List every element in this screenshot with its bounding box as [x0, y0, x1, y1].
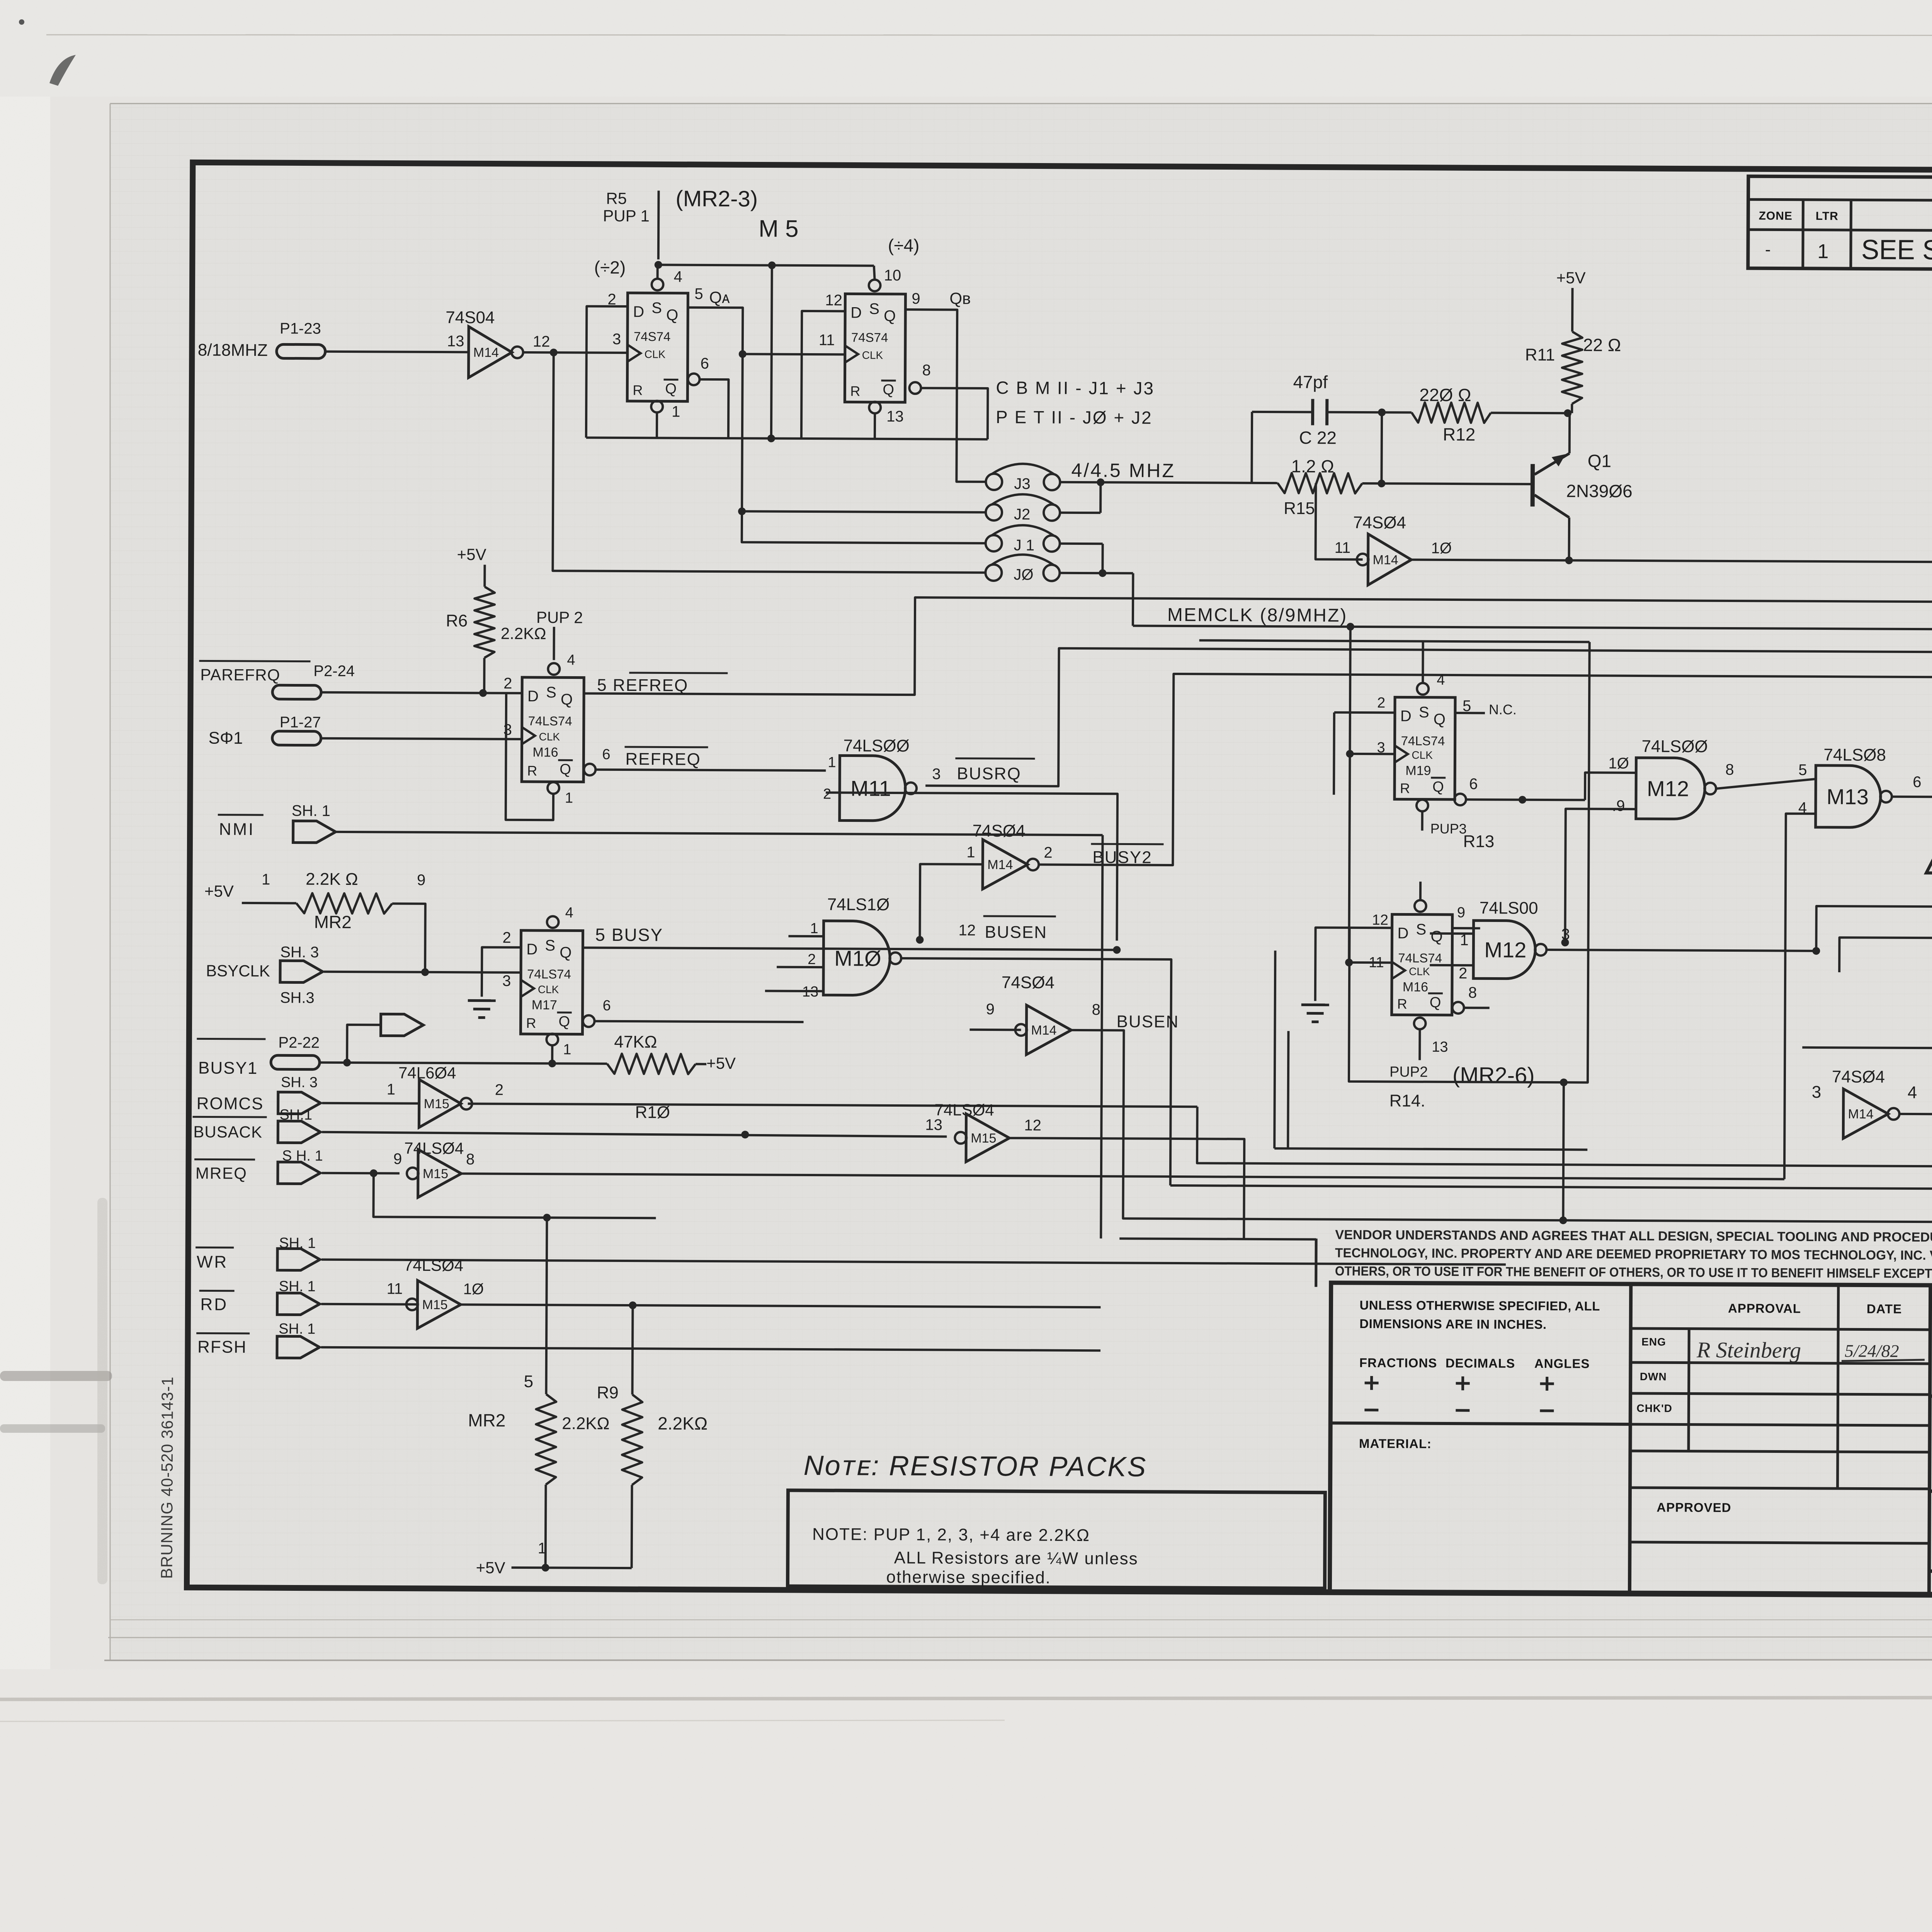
svg-text:4: 4 [1908, 1083, 1917, 1102]
svg-text:M 5: M 5 [759, 215, 799, 242]
svg-text:+5V: +5V [1556, 269, 1586, 287]
svg-text:WR: WR [197, 1252, 228, 1271]
svg-text:SH. 1: SH. 1 [292, 802, 330, 819]
jumper J2 [986, 504, 1002, 520]
svg-text:Q: Q [561, 691, 573, 708]
svg-text:PUP2: PUP2 [1389, 1064, 1428, 1080]
svg-text:(MR2-3): (MR2-3) [675, 186, 758, 212]
svg-text:1: 1 [563, 1041, 571, 1058]
svg-text:SH.3: SH.3 [280, 989, 315, 1006]
svg-text:1: 1 [262, 871, 270, 888]
svg-text:SΦ1: SΦ1 [209, 729, 243, 748]
svg-text:Q: Q [560, 761, 571, 777]
wire M19 clk stub [1350, 753, 1395, 755]
svg-text:Nᴏᴛᴇ: RESISTOR PACKS: Nᴏᴛᴇ: RESISTOR PACKS [804, 1450, 1147, 1483]
svg-text:4: 4 [567, 652, 575, 668]
svg-text:8: 8 [922, 362, 931, 379]
svg-text:S: S [651, 299, 662, 316]
svg-text:(÷4): (÷4) [888, 235, 920, 255]
svg-text:R: R [1400, 780, 1410, 796]
graph paper interior tint [110, 104, 1932, 1661]
svg-text:12: 12 [958, 922, 976, 939]
wire RFSH [321, 1347, 1100, 1350]
svg-text:CLK: CLK [1409, 966, 1430, 978]
svg-text:R9: R9 [597, 1383, 618, 1402]
svg-text:(÷2): (÷2) [594, 257, 626, 277]
wire M14e to M18b clk [1898, 1092, 1932, 1114]
svg-text:Qʙ: Qʙ [949, 289, 971, 308]
svg-text:Q: Q [1432, 779, 1444, 795]
wire J3 to RC network [1060, 482, 1252, 483]
svg-text:4: 4 [674, 269, 682, 286]
svg-text:PAREFRQ: PAREFRQ [200, 665, 280, 684]
svg-text:10: 10 [884, 267, 901, 284]
svg-text:74LSØ4: 74LSØ4 [404, 1256, 463, 1275]
svg-text:M12: M12 [1647, 776, 1689, 801]
svg-text:3: 3 [502, 973, 511, 990]
svg-text:2.2KΩ: 2.2KΩ [501, 624, 546, 643]
pin1 R stub M16a [548, 782, 559, 794]
svg-text:S: S [869, 301, 879, 318]
svg-text:Q: Q [884, 308, 896, 325]
svg-text:2: 2 [1044, 844, 1052, 861]
svg-text:11: 11 [1335, 539, 1351, 556]
M10 input stubs [788, 935, 823, 937]
svg-text:Q: Q [558, 1014, 570, 1030]
svg-text:Qᴀ: Qᴀ [709, 288, 730, 306]
pin6 Qbar feedback [688, 374, 699, 385]
svg-text:2.2KΩ: 2.2KΩ [658, 1413, 707, 1434]
svg-text:BUSY1: BUSY1 [198, 1058, 258, 1078]
svg-text:CLK: CLK [862, 349, 883, 361]
svg-text:D: D [1397, 925, 1408, 942]
svg-text:R14.: R14. [1389, 1091, 1425, 1110]
svg-text:D: D [850, 304, 862, 321]
svg-text:12: 12 [1372, 912, 1388, 928]
svg-text:1Ø: 1Ø [1608, 755, 1629, 772]
wire base line to Q1 [1381, 483, 1532, 484]
svg-text:S: S [546, 684, 556, 701]
svg-text:SEE SHEET 1: SEE SHEET 1 [1861, 234, 1932, 266]
reference triangle A2 [1926, 812, 1932, 873]
svg-text:Q: Q [1430, 928, 1442, 945]
paper edge lines [110, 103, 1932, 104]
M19 Qbar out 6 [1454, 794, 1466, 805]
wire vertical 3335 [1288, 1031, 1288, 1148]
svg-text:9: 9 [986, 1001, 995, 1018]
svg-text:47KΩ: 47KΩ [614, 1032, 657, 1051]
wire WR [321, 1260, 1506, 1265]
svg-text:47pf: 47pf [1293, 372, 1328, 392]
wire BUSY1 [320, 1063, 607, 1064]
svg-text:R13: R13 [1463, 832, 1494, 851]
M19 R pin1 PUP3 R13 [1417, 800, 1428, 811]
svg-text:DECIMALS: DECIMALS [1446, 1356, 1515, 1371]
svg-text:+5V: +5V [706, 1054, 736, 1072]
jumper J1 [986, 535, 1002, 551]
svg-text:2.2KΩ: 2.2KΩ [562, 1414, 610, 1433]
svg-text:8/18MHZ: 8/18MHZ [198, 340, 268, 360]
svg-text:J3: J3 [1014, 475, 1030, 492]
svg-text:M14: M14 [1031, 1023, 1056, 1037]
wire ROMCS [322, 1103, 419, 1104]
svg-text:2: 2 [503, 675, 512, 692]
wire M19 D stub [1334, 711, 1395, 714]
svg-text:74LS74: 74LS74 [1401, 733, 1445, 748]
svg-text:M14: M14 [987, 857, 1013, 872]
svg-text:CLK: CLK [1412, 749, 1433, 761]
wire MREQ [322, 1172, 400, 1175]
junction C22/R15 [1378, 408, 1386, 416]
svg-text:13: 13 [447, 333, 464, 350]
svg-text:P2-24: P2-24 [313, 663, 355, 680]
svg-text:M1Ø: M1Ø [834, 946, 881, 971]
svg-text:C B M II - J1 + J3: C B M II - J1 + J3 [996, 378, 1155, 398]
svg-text:5 REFREQ: 5 REFREQ [597, 676, 688, 695]
flip-flop M19 74LS74 [1395, 697, 1455, 799]
svg-text:1: 1 [966, 844, 975, 861]
svg-text:CLK: CLK [538, 983, 559, 995]
svg-text:S: S [1416, 921, 1426, 938]
wire bus 2972 [1101, 835, 1102, 1238]
svg-text:74SØ4: 74SØ4 [973, 821, 1026, 841]
scanner smudges left edge [0, 1371, 112, 1381]
svg-text:ALL Resistors are ¼W unles: ALL Resistors are ¼W unless [894, 1548, 1138, 1568]
svg-text:REFREQ: REFREQ [625, 750, 701, 769]
svg-text:74SØ4: 74SØ4 [1832, 1067, 1885, 1087]
svg-text:D: D [1400, 707, 1412, 724]
wire MEMCLK bus [1133, 626, 1932, 629]
svg-text:M14: M14 [1373, 553, 1398, 567]
svg-text:+5V: +5V [457, 545, 486, 563]
svg-text:.9: .9 [1612, 798, 1625, 815]
svg-text:BRUNING 40-520 36143-1: BRUNING 40-520 36143-1 [158, 1376, 177, 1579]
flip-flop M16a 74LS74 [522, 677, 584, 782]
svg-text:APPROVAL: APPROVAL [1728, 1301, 1801, 1316]
svg-text:BUSRQ: BUSRQ [957, 764, 1021, 784]
approval/date grid [1631, 1328, 1930, 1330]
svg-text:R: R [526, 1015, 536, 1031]
svg-text:M15: M15 [971, 1131, 996, 1146]
wire M19 S rail [1199, 640, 1590, 642]
svg-text:P1-27: P1-27 [280, 714, 321, 731]
svg-text:BUSEN: BUSEN [1116, 1012, 1179, 1031]
svg-text:5/24/82: 5/24/82 [1845, 1341, 1899, 1361]
wire into M14d [969, 1029, 1021, 1031]
svg-text:SH. 1: SH. 1 [279, 1321, 315, 1337]
svg-text:M13: M13 [1827, 784, 1869, 809]
svg-text:8: 8 [1092, 1001, 1100, 1018]
wire QA to J2 [742, 511, 986, 512]
M16b Qbar 8 [1452, 1002, 1464, 1014]
svg-text:5 BUSY: 5 BUSY [595, 925, 663, 945]
svg-text:MATERIAL:: MATERIAL: [1359, 1436, 1432, 1451]
svg-text:-: - [1765, 240, 1771, 259]
svg-text:PUP3: PUP3 [1430, 821, 1467, 837]
svg-text:74LS74: 74LS74 [527, 967, 571, 981]
disclaimer left bracket wire [1315, 1239, 1318, 1287]
flip-flop M17 74LS74 [520, 930, 583, 1034]
svg-text:8: 8 [466, 1151, 474, 1168]
svg-text:4: 4 [1437, 672, 1445, 688]
flip-flop M5a 74S74 (div2) [627, 293, 688, 401]
svg-text:74LSØ4: 74LSØ4 [404, 1139, 464, 1158]
svg-text:Q1: Q1 [1588, 451, 1612, 471]
svg-text:2: 2 [1377, 695, 1385, 711]
svg-text:ANGLES: ANGLES [1534, 1356, 1590, 1371]
svg-text:RFSH: RFSH [197, 1337, 247, 1357]
graph paper grid [110, 104, 1932, 1661]
svg-text:R: R [633, 382, 643, 398]
stray pen mark top-left [49, 55, 76, 86]
svg-text:1: 1 [387, 1081, 395, 1098]
svg-text:74L6Ø4: 74L6Ø4 [398, 1064, 456, 1082]
flip-flop M5b 74S74 (div4) [845, 294, 905, 402]
vertical M5 center rail [771, 265, 772, 439]
svg-text:22 Ω: 22 Ω [1583, 335, 1621, 355]
svg-text:CHK'D: CHK'D [1636, 1402, 1672, 1414]
svg-text:R1Ø: R1Ø [635, 1103, 670, 1122]
svg-text:M16: M16 [532, 745, 558, 760]
svg-text:D: D [526, 941, 537, 958]
svg-text:74S74: 74S74 [851, 330, 888, 344]
M12c inputs [1816, 906, 1932, 952]
svg-text:Q: Q [1434, 711, 1446, 728]
svg-text:M19: M19 [1405, 763, 1431, 778]
svg-text:NOTE: PUP 1, 2, 3, +4 are 2: NOTE: PUP 1, 2, 3, +4 are 2.2KΩ [812, 1525, 1090, 1545]
svg-text:ROMCS: ROMCS [197, 1094, 264, 1113]
svg-text:4/4.5 MHZ: 4/4.5 MHZ [1071, 459, 1175, 481]
svg-text:74LSØ8: 74LSØ8 [1823, 745, 1886, 765]
svg-text:DIMENSIONS ARE IN INCHES.: DIMENSIONS ARE IN INCHES. [1359, 1316, 1546, 1332]
svg-text:R5: R5 [606, 189, 627, 207]
wire into M14b [920, 864, 983, 940]
M18b D wire [1802, 1048, 1932, 1048]
svg-text:3: 3 [932, 765, 940, 782]
node 4/4.5MHz branch vertical [1250, 412, 1253, 483]
svg-text:P E T II - JØ + J2: P E T II - JØ + J2 [996, 407, 1153, 428]
svg-text:74SØ4: 74SØ4 [1353, 513, 1406, 532]
svg-text:6: 6 [602, 747, 610, 763]
wire bus 3207 [1119, 1238, 1316, 1239]
flip-flop M16b 74LS74 [1392, 914, 1452, 1015]
svg-text:2: 2 [495, 1082, 503, 1099]
svg-text:1Ø: 1Ø [1431, 540, 1452, 557]
svg-text:2N39Ø6: 2N39Ø6 [1566, 481, 1633, 501]
wire BUSRQ line [925, 648, 1932, 791]
svg-text:13: 13 [886, 408, 904, 425]
svg-text:5: 5 [694, 286, 703, 303]
svg-text:R: R [1397, 996, 1407, 1012]
svg-text:NMI: NMI [219, 820, 255, 839]
M16b D ground [1315, 928, 1392, 1002]
wire vertical 3300 [1274, 951, 1275, 1148]
svg-text:+5V: +5V [476, 1558, 505, 1577]
svg-text:12: 12 [533, 333, 550, 350]
wire MREQ inverted long [462, 1173, 1784, 1179]
svg-text:RD: RD [200, 1295, 228, 1314]
svg-text:1: 1 [672, 403, 680, 420]
svg-text:S: S [1419, 704, 1429, 721]
wire BUSEN long [1070, 1030, 1932, 1223]
svg-text:3: 3 [503, 721, 512, 738]
M12b input stubs [1430, 932, 1474, 935]
svg-text:22Ø Ω: 22Ø Ω [1419, 385, 1471, 405]
revisions table [1748, 176, 1932, 271]
svg-text:3: 3 [612, 331, 621, 348]
svg-text:J 1: J 1 [1014, 537, 1035, 554]
svg-text:N.C.: N.C. [1489, 701, 1517, 717]
svg-text:2: 2 [808, 951, 816, 968]
svg-text:1: 1 [810, 920, 818, 937]
pin8 Qbar feedback [909, 382, 921, 394]
svg-text:M14: M14 [1848, 1107, 1874, 1121]
svg-text:ZONE: ZONE [1759, 209, 1793, 222]
svg-text:MR2: MR2 [314, 912, 352, 932]
svg-text:6: 6 [701, 355, 709, 372]
svg-text:5: 5 [1798, 762, 1807, 779]
wire MREQ branch down [373, 1173, 656, 1218]
wire PAREFRQ to M16 D [321, 692, 522, 693]
svg-text:M17: M17 [532, 998, 557, 1012]
svg-text:74SØ4: 74SØ4 [1002, 973, 1054, 992]
svg-text:BSYCLK: BSYCLK [206, 961, 270, 980]
jumper J0 [985, 565, 1002, 581]
bottom feedback rail [586, 438, 988, 439]
svg-text:1: 1 [565, 790, 573, 806]
svg-text:74S74: 74S74 [634, 329, 671, 344]
svg-text:BUSEN: BUSEN [985, 923, 1047, 942]
M17 D ground [482, 947, 521, 997]
svg-text:PUP 2: PUP 2 [536, 608, 583, 627]
svg-text:M12: M12 [1484, 937, 1526, 962]
wire BSYCLK to M17 clk [324, 972, 521, 973]
M17 R pin1 [546, 1034, 558, 1045]
svg-text:M15: M15 [423, 1167, 448, 1181]
pin6 Qbar REFREQ out [584, 764, 595, 776]
pin4 S bubble [651, 279, 663, 290]
svg-text:1.2 Ω: 1.2 Ω [1291, 456, 1334, 476]
svg-text:6: 6 [1913, 774, 1921, 791]
svg-text:SH. 3: SH. 3 [281, 1074, 318, 1090]
wire RD [321, 1304, 418, 1304]
svg-text:6: 6 [1469, 776, 1478, 793]
svg-text:1: 1 [828, 754, 836, 770]
wire S01 to M16 clk [321, 738, 522, 739]
svg-text:9: 9 [393, 1151, 402, 1168]
jumper J3 [986, 474, 1002, 490]
note box [787, 1490, 1325, 1588]
svg-text:CLK: CLK [645, 348, 666, 360]
svg-text:M14: M14 [473, 345, 499, 360]
wire P1-23 to M14 [325, 352, 469, 352]
wire J1 link [1060, 543, 1103, 545]
svg-text:R Steinberg: R Steinberg [1696, 1337, 1801, 1363]
svg-text:2: 2 [502, 929, 511, 946]
svg-text:Q: Q [560, 944, 571, 961]
wire memclk drop [1349, 627, 1350, 966]
title block frame [1330, 1283, 1932, 1597]
wire QA to FF M5b clk [743, 354, 845, 354]
svg-text:9: 9 [912, 290, 920, 307]
svg-text:2: 2 [823, 786, 831, 802]
svg-text:74LSØØ: 74LSØØ [843, 736, 909, 755]
wire PUP2 stub [553, 627, 555, 660]
svg-text:CLK: CLK [539, 731, 560, 743]
pin4 bubble M16a [548, 663, 560, 675]
svg-text:Q: Q [1430, 995, 1441, 1011]
svg-text:8: 8 [1725, 761, 1734, 778]
svg-text:M11: M11 [850, 776, 891, 800]
drawing border frame [187, 162, 1932, 1597]
wire M16a Qbar to M11 [595, 770, 826, 770]
svg-text:FRACTIONS: FRACTIONS [1359, 1355, 1437, 1370]
svg-text:otherwise specified.: otherwise specified. [886, 1568, 1051, 1587]
svg-text:13: 13 [925, 1116, 942, 1133]
svg-text:J2: J2 [1014, 506, 1030, 523]
pin10 S bubble [869, 280, 880, 291]
svg-text:M15: M15 [424, 1097, 449, 1111]
svg-text:12: 12 [825, 292, 842, 309]
svg-text:2.2K Ω: 2.2K Ω [306, 870, 358, 889]
svg-text:MR2: MR2 [468, 1410, 505, 1430]
svg-text:DWN: DWN [1640, 1371, 1667, 1383]
svg-text:P1-23: P1-23 [280, 320, 321, 337]
svg-text:1Ø: 1Ø [463, 1281, 484, 1298]
svg-text:74LS74: 74LS74 [528, 714, 572, 728]
svg-text:PUP 1: PUP 1 [603, 207, 650, 225]
svg-text:11: 11 [387, 1280, 403, 1297]
svg-text:UNLESS OTHERWISE SPECIFIED, AL: UNLESS OTHERWISE SPECIFIED, ALL [1359, 1298, 1600, 1313]
svg-text:Q: Q [666, 306, 678, 323]
svg-text:3: 3 [1812, 1083, 1821, 1102]
svg-text:R6: R6 [446, 611, 468, 630]
svg-text:4: 4 [565, 905, 573, 921]
svg-text:3: 3 [1561, 926, 1570, 943]
svg-text:74LS00: 74LS00 [1480, 898, 1538, 918]
wire into M14 pin11 [1316, 483, 1363, 560]
wire loop rail [1349, 641, 1590, 1083]
svg-text:DATE: DATE [1867, 1301, 1902, 1316]
svg-text:74LS1Ø: 74LS1Ø [827, 895, 890, 914]
svg-text:(MR2-6): (MR2-6) [1452, 1063, 1535, 1088]
svg-text:D: D [527, 688, 539, 705]
M16b Q stub [1452, 927, 1480, 929]
M16b R pin13 [1414, 1018, 1425, 1029]
pin13 R bubble [869, 402, 881, 413]
svg-text:BUSACK: BUSACK [193, 1122, 262, 1141]
svg-text:M15: M15 [422, 1298, 447, 1312]
svg-text:11: 11 [819, 332, 835, 349]
svg-text:LTR: LTR [1816, 210, 1838, 223]
svg-text:Q: Q [883, 382, 894, 398]
svg-text:13: 13 [1432, 1039, 1448, 1055]
M17 Qbar 6 [583, 1015, 595, 1027]
svg-text:9: 9 [417, 872, 425, 889]
svg-text:Q: Q [665, 381, 677, 397]
svg-text:MEMCLK (8/9MHZ): MEMCLK (8/9MHZ) [1167, 605, 1348, 626]
wire M14 out to FF M5a [523, 352, 628, 353]
svg-text:74LSØ4: 74LSØ4 [935, 1100, 994, 1119]
svg-text:APPROVED: APPROVED [1656, 1500, 1731, 1515]
M11 in2 from BUSY [825, 793, 1117, 940]
svg-text:74LSØØ: 74LSØØ [1641, 737, 1708, 756]
svg-text:1: 1 [1817, 240, 1828, 263]
wire drop to BUSEN [1563, 1082, 1563, 1220]
svg-text:MREQ: MREQ [196, 1164, 247, 1182]
pin1 R bubble [651, 401, 663, 412]
svg-text:6: 6 [603, 998, 611, 1014]
